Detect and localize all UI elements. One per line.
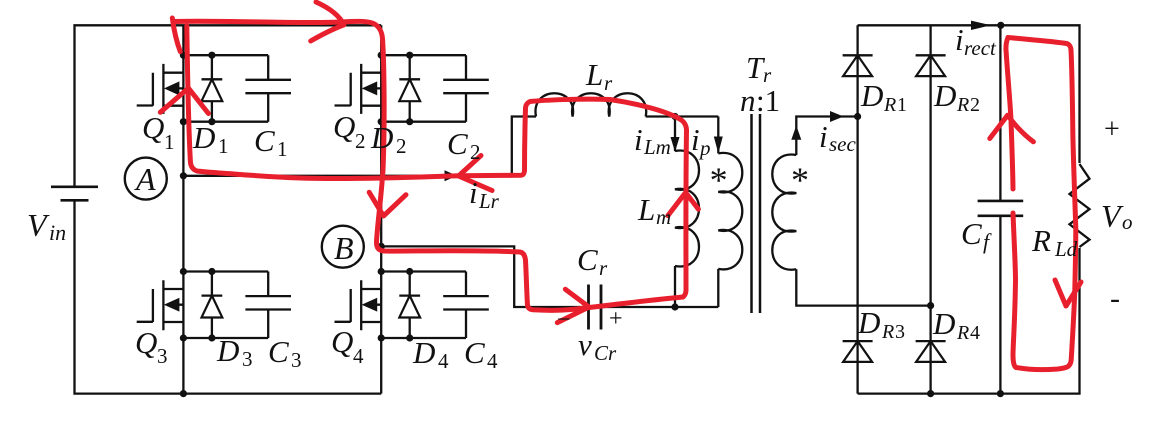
svg-text:C: C [447, 126, 468, 161]
svg-text:i: i [691, 122, 700, 157]
svg-text:B: B [334, 230, 354, 266]
svg-text:L: L [637, 192, 655, 227]
svg-text:r: r [599, 256, 608, 280]
svg-text:3: 3 [895, 321, 905, 343]
svg-text:v: v [578, 327, 592, 362]
svg-text:p: p [698, 136, 711, 160]
svg-text:2: 2 [470, 140, 481, 164]
svg-text::1: :1 [756, 83, 780, 118]
svg-text:1: 1 [164, 130, 175, 154]
svg-text:m: m [656, 205, 671, 229]
svg-text:4: 4 [353, 344, 364, 368]
svg-text:D: D [933, 78, 956, 113]
svg-text:3: 3 [157, 344, 168, 368]
svg-text:4: 4 [438, 349, 449, 373]
svg-text:2: 2 [970, 94, 980, 116]
svg-text:3: 3 [291, 348, 302, 372]
svg-text:1: 1 [218, 134, 229, 158]
svg-text:4: 4 [970, 322, 980, 344]
svg-text:R: R [881, 321, 894, 343]
svg-text:n: n [740, 83, 756, 118]
svg-text:Q: Q [331, 324, 353, 359]
svg-text:C: C [268, 334, 289, 369]
svg-text:sec: sec [829, 132, 856, 156]
svg-text:Lr: Lr [478, 189, 500, 213]
svg-text:2: 2 [355, 129, 366, 153]
svg-text:i: i [469, 175, 478, 210]
svg-text:C: C [254, 123, 275, 158]
svg-text:Q: Q [142, 110, 164, 145]
svg-text:1: 1 [277, 137, 288, 161]
svg-text:D: D [412, 335, 435, 370]
svg-text:D: D [932, 306, 955, 341]
svg-text:*: * [710, 160, 728, 200]
svg-text:D: D [370, 120, 393, 155]
svg-text:C: C [464, 335, 485, 370]
svg-text:−: − [557, 307, 571, 333]
svg-text:D: D [216, 333, 239, 368]
svg-text:-: - [1110, 282, 1120, 315]
svg-text:Q: Q [135, 325, 157, 360]
svg-text:i: i [955, 22, 964, 57]
svg-text:Cr: Cr [594, 341, 617, 365]
svg-text:o: o [1122, 210, 1133, 234]
svg-text:rect: rect [964, 36, 997, 60]
svg-text:3: 3 [242, 347, 253, 371]
svg-text:R: R [956, 94, 969, 116]
svg-text:R: R [883, 94, 896, 116]
svg-text:A: A [134, 161, 156, 197]
svg-text:in: in [49, 220, 66, 245]
svg-text:+: + [1104, 114, 1120, 145]
svg-text:D: D [860, 78, 883, 113]
svg-text:r: r [604, 71, 613, 95]
svg-text:R: R [1031, 223, 1051, 258]
svg-text:R: R [956, 322, 969, 344]
svg-text:C: C [577, 242, 598, 277]
svg-text:i: i [634, 122, 643, 157]
svg-text:4: 4 [487, 349, 498, 373]
svg-text:Q: Q [333, 109, 355, 144]
svg-text:Lm: Lm [643, 135, 671, 159]
svg-text:D: D [857, 305, 880, 340]
svg-text:C: C [961, 216, 982, 251]
svg-text:Ld: Ld [1054, 237, 1078, 261]
svg-text:L: L [585, 57, 603, 92]
svg-text:1: 1 [897, 94, 907, 116]
svg-text:2: 2 [396, 134, 407, 158]
svg-text:i: i [819, 119, 828, 154]
svg-text:+: + [609, 306, 623, 332]
svg-text:D: D [192, 120, 215, 155]
svg-text:*: * [791, 160, 809, 200]
